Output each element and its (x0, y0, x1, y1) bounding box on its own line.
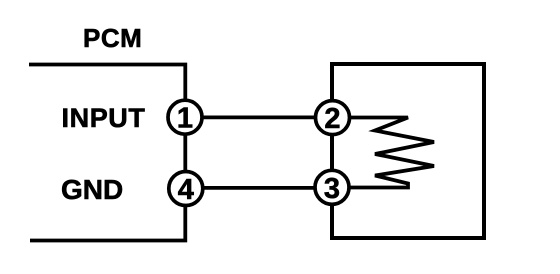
svg-text:INPUT: INPUT (62, 103, 146, 133)
svg-text:4: 4 (178, 174, 194, 206)
svg-text:3: 3 (324, 173, 340, 205)
svg-text:PCM: PCM (83, 23, 142, 53)
svg-text:2: 2 (324, 103, 340, 135)
svg-text:1: 1 (177, 103, 193, 135)
svg-text:GND: GND (61, 174, 123, 205)
